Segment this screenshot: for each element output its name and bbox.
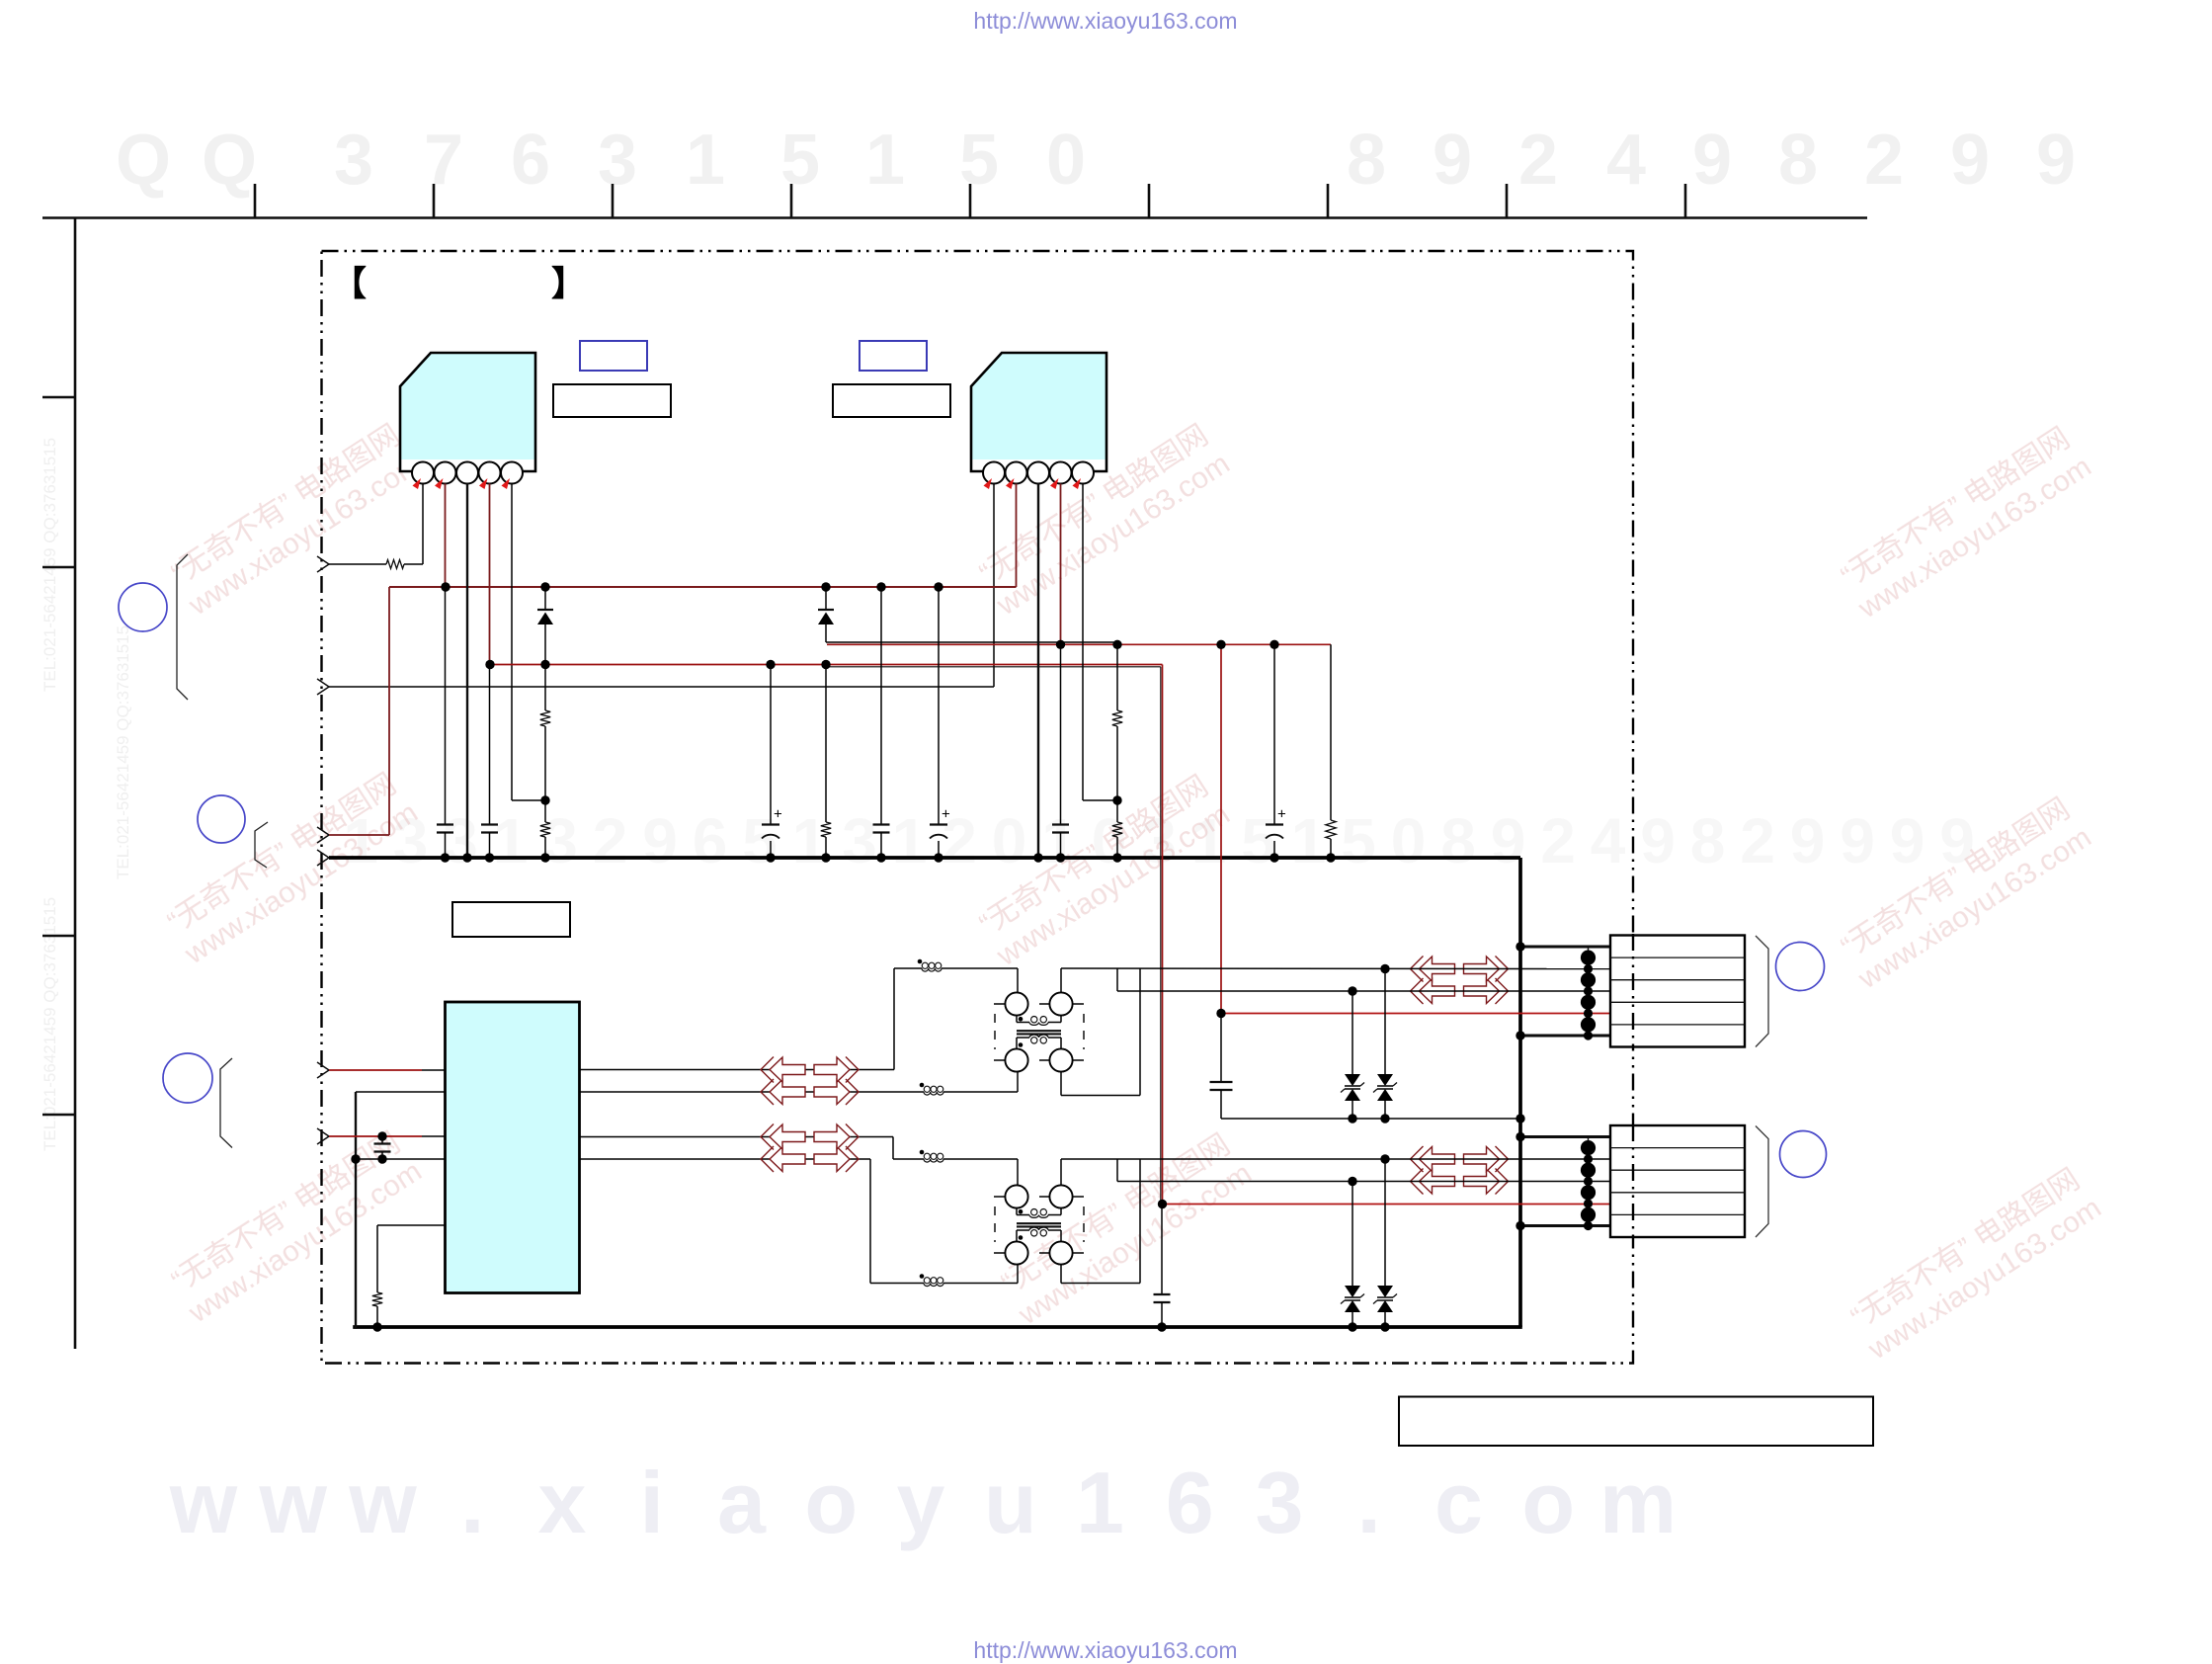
svg-text:9: 9 <box>1790 805 1826 876</box>
TVS diode VD2 <box>1377 1074 1393 1086</box>
capacitor C5 electrolytic <box>930 823 947 825</box>
IC U2 body <box>971 353 1106 471</box>
junctions on bus B2 <box>485 660 494 669</box>
wire TVS3 top <box>1352 1182 1353 1287</box>
wire TVS4 top <box>1384 1159 1386 1286</box>
connector CN2 mate bracket <box>1756 1126 1768 1238</box>
svg-text:1: 1 <box>1076 1454 1124 1551</box>
capacitor C6 <box>1052 823 1069 825</box>
transistor Q5 <box>1005 1185 1027 1207</box>
wire U1 pin4 drop <box>489 484 491 665</box>
capacitor C7 electrolytic <box>1266 823 1283 825</box>
svg-text:6: 6 <box>511 121 550 200</box>
part label box IC3 <box>452 902 570 937</box>
wire R1 to U1 pin1 <box>404 563 423 565</box>
wire node to R2 <box>544 665 546 711</box>
watermark top digit row <box>116 121 2076 200</box>
svg-text:3: 3 <box>443 805 478 876</box>
svg-text:o: o <box>804 1454 858 1551</box>
wire L2 to Q bank <box>943 1091 1018 1093</box>
junctions on gnd line 1132 <box>1348 1114 1356 1123</box>
svg-text:5: 5 <box>959 121 999 200</box>
junctions near CN1 <box>1516 942 1524 951</box>
svg-text:w: w <box>348 1454 417 1551</box>
transformer T2 shield dashes <box>994 1206 996 1242</box>
svg-text:5: 5 <box>780 121 820 200</box>
diode D1 <box>537 609 553 611</box>
svg-text:w: w <box>259 1454 328 1551</box>
svg-text:0: 0 <box>992 805 1027 876</box>
input arrow IN5 <box>317 1062 329 1078</box>
capacitor C3 electrolytic <box>762 823 779 825</box>
svg-text:8: 8 <box>1440 805 1476 876</box>
coupler arrows pair 4 <box>1420 1169 1455 1194</box>
transformer T1 primary <box>1016 1015 1018 1023</box>
wire C7 hang <box>1273 644 1275 824</box>
svg-text:8: 8 <box>1347 121 1386 200</box>
resistor R7 <box>1326 820 1336 839</box>
svg-text:m: m <box>1599 1454 1677 1551</box>
capacitor C1 <box>437 823 453 825</box>
wire B2 drop black twin <box>1160 667 1162 1205</box>
TVS diode VD3 <box>1345 1286 1360 1297</box>
inductor L3 <box>924 1159 943 1162</box>
transformer T2 primary <box>1016 1207 1018 1215</box>
wire C2 to GND bus <box>489 833 491 859</box>
capacitor C10 <box>1154 1293 1171 1295</box>
svg-text:i: i <box>640 1454 664 1551</box>
wire C9 chain <box>1220 1014 1222 1083</box>
wire R8 to GND bottom <box>376 1306 378 1327</box>
wire thick CN2 pin1 <box>1520 1135 1610 1138</box>
ref circle CN1 <box>1776 943 1825 991</box>
svg-text:5: 5 <box>742 805 778 876</box>
coupler arrows pair 3 <box>1420 979 1455 1004</box>
wire TVS2 bottom <box>1384 1101 1386 1119</box>
svg-text:3: 3 <box>1256 1454 1304 1551</box>
note box bottom <box>1399 1397 1873 1447</box>
wire R7 to GND bus <box>1330 839 1332 858</box>
wire node to C6 <box>1060 644 1062 824</box>
IC U2 pin arrows <box>984 478 993 489</box>
bus +B top <box>389 586 1017 588</box>
svg-text:9: 9 <box>1692 121 1732 200</box>
svg-text:3: 3 <box>842 805 877 876</box>
inductor L2 <box>924 1092 943 1095</box>
wire Q8 output riser <box>1060 1264 1062 1284</box>
ref circle A <box>119 583 167 631</box>
input arrow IN6 <box>317 1128 329 1144</box>
capacitor C8 <box>374 1142 391 1144</box>
junctions on line651 <box>1056 640 1065 649</box>
wire U1 pin2 drop <box>445 484 447 588</box>
wire thick CN2 pin5 <box>1520 1224 1610 1227</box>
wire IN2 line to U2 pin1 <box>329 686 994 688</box>
resistor R5 <box>1112 710 1122 726</box>
brace C <box>220 1058 232 1148</box>
svg-text:3: 3 <box>334 121 373 200</box>
wire GND right drop <box>1518 858 1522 1327</box>
svg-text:0: 0 <box>1391 805 1427 876</box>
svg-text:4: 4 <box>1591 805 1626 876</box>
svg-text:6: 6 <box>693 805 728 876</box>
ref circle C <box>163 1053 212 1103</box>
wire U3 pin feedback <box>377 1224 446 1226</box>
bus B2 black twin <box>826 666 1161 668</box>
part label box 2 <box>833 384 950 417</box>
wire node A to C2 <box>489 665 491 825</box>
top ruler line <box>42 216 1867 219</box>
inductor L1 <box>922 968 942 971</box>
wire TVS3 bottom <box>1352 1312 1353 1327</box>
svg-text:1: 1 <box>865 121 905 200</box>
svg-text:x: x <box>538 1454 587 1551</box>
transistor Q2 <box>1049 992 1072 1015</box>
wire L3 to Q bank2 <box>943 1158 1018 1160</box>
wire D1 to bus2 <box>544 624 546 665</box>
svg-text:1: 1 <box>892 805 928 876</box>
svg-text:2: 2 <box>1864 121 1904 200</box>
wire line651 red <box>827 643 1331 645</box>
svg-text:+: + <box>774 806 782 823</box>
wire R6 to GND bus <box>1116 837 1118 858</box>
bus GND bottom <box>353 1325 1522 1329</box>
svg-text:u: u <box>984 1454 1037 1551</box>
wire C8 bottom <box>381 1152 383 1160</box>
connector CN1 mate bracket <box>1756 936 1768 1047</box>
inductor L4 <box>924 1284 943 1287</box>
wire C9 to gnd line <box>1220 1090 1222 1119</box>
wire U3 out4 <box>580 1158 871 1160</box>
svg-text:9: 9 <box>642 805 678 876</box>
svg-text:7: 7 <box>424 121 463 200</box>
Q bank 1 stubs <box>994 1003 1006 1005</box>
wire IN5 red to U3 <box>329 1069 422 1071</box>
TVS diode VD1 <box>1345 1074 1360 1086</box>
wire U1 pin3 ground <box>466 484 468 859</box>
junctions on GND bottom bus <box>372 1322 381 1331</box>
transistor Q8 <box>1049 1241 1072 1264</box>
brace B <box>255 822 268 868</box>
capacitor C9 <box>1210 1081 1233 1083</box>
transistor Q1 <box>1005 992 1027 1015</box>
wire C3 to GND bus <box>770 841 772 858</box>
junctions lower IC <box>377 1131 386 1140</box>
wire Q4 output riser <box>1060 1071 1062 1096</box>
top ruler ticks <box>255 184 1685 217</box>
svg-text:Q: Q <box>116 121 171 200</box>
svg-text:y: y <box>897 1454 945 1551</box>
part label box 1 <box>553 384 671 417</box>
svg-text:TEL:021-56421459 QQ:37631515: TEL:021-56421459 QQ:37631515 <box>41 438 59 692</box>
wire R2 to node <box>544 726 546 800</box>
ref circle B <box>198 795 245 843</box>
wire node to R5 <box>1116 644 1118 710</box>
svg-text:9: 9 <box>2036 121 2076 200</box>
svg-text:2: 2 <box>1518 121 1558 200</box>
capacitor C2 <box>481 823 498 825</box>
svg-text:3: 3 <box>598 121 637 200</box>
wire C1 to GND bus <box>445 833 447 859</box>
wire U3 out2 <box>580 1091 925 1093</box>
wire C7 to GND bus <box>1273 841 1275 858</box>
IC U1 pin arrows <box>413 478 422 489</box>
IC U3 body <box>446 1002 580 1293</box>
wire B2 drop red <box>1162 665 1164 1205</box>
wire Q2 output to CN1 pin2 <box>1060 968 1062 993</box>
resistor R1 <box>386 560 404 569</box>
wire node to R4 <box>825 665 827 823</box>
wire C10 to GND bottom <box>1161 1302 1163 1327</box>
wire C4 hang <box>880 587 882 825</box>
ref label box blue 2 <box>860 341 927 371</box>
svg-text:2: 2 <box>593 805 628 876</box>
svg-text:9: 9 <box>1890 805 1925 876</box>
junctions near CN2 <box>1516 1132 1524 1141</box>
wire Q6 output to CN2 pin2 <box>1060 1159 1062 1186</box>
wire C5 to GND bus <box>938 841 940 858</box>
wire L4 to Q bank2 <box>943 1283 1018 1285</box>
svg-text:1: 1 <box>1291 805 1327 876</box>
board border over connectors <box>1632 934 1634 1048</box>
wire jog to CN2 pin3 <box>1116 1159 1118 1182</box>
svg-text:9: 9 <box>1640 805 1676 876</box>
wire L1 to Q bank <box>942 967 1018 969</box>
wire IN3 red <box>329 834 389 836</box>
wire R4 to GND bus <box>825 837 827 858</box>
transistor Q7 <box>1005 1241 1027 1264</box>
wire U3 out1 <box>580 1069 895 1071</box>
transistor Q4 <box>1049 1048 1072 1071</box>
svg-text:w: w <box>169 1454 238 1551</box>
wire line651 red drop <box>1220 644 1222 1013</box>
wire D1 anode chain <box>544 587 546 610</box>
svg-text:.: . <box>460 1454 484 1551</box>
svg-text:a: a <box>717 1454 767 1551</box>
wire C10 chain <box>1161 1205 1163 1295</box>
wire D2 out corner <box>825 624 827 642</box>
watermark diagonal pink stamps <box>159 417 2107 1366</box>
svg-text:9: 9 <box>1433 121 1472 200</box>
watermark middle digit row <box>343 805 1975 876</box>
wire red feed CN2 pin4 <box>1163 1204 1611 1206</box>
svg-text:http://www.xiaoyu163.com: http://www.xiaoyu163.com <box>973 8 1237 34</box>
wire U2 pin5 drop <box>1082 484 1084 801</box>
wire IN1 to R1 <box>329 563 386 565</box>
wire C6 to GND bus <box>1060 833 1062 859</box>
junctions on GND main bus <box>441 853 450 862</box>
resistor R8 <box>372 1292 382 1306</box>
svg-text:4: 4 <box>1606 121 1646 200</box>
TVS diode VD4 <box>1377 1286 1393 1297</box>
wire D2 chain <box>825 587 827 610</box>
wire IN6 red to U3 <box>329 1135 422 1137</box>
resistor R6 <box>1112 822 1122 837</box>
wire TVS1 bottom <box>1352 1101 1353 1119</box>
connector CN2 jumper <box>1588 1137 1590 1226</box>
svg-text:.: . <box>1357 1454 1381 1551</box>
svg-text:5: 5 <box>1341 805 1376 876</box>
svg-text:1: 1 <box>493 805 529 876</box>
wire U2 pin4 drop <box>1060 484 1062 645</box>
transformer T1 shield dashes <box>994 1014 996 1049</box>
ref label box blue 1 <box>580 341 647 371</box>
wire C4 to GND bus <box>880 833 882 859</box>
wire C5 hang <box>938 587 940 825</box>
wire TVS1 top <box>1352 991 1353 1074</box>
svg-text:8: 8 <box>1778 121 1818 200</box>
wire R3 to GND bus <box>544 837 546 858</box>
bus GND main <box>329 856 1520 860</box>
svg-text:2: 2 <box>1740 805 1775 876</box>
svg-text:9: 9 <box>1950 121 1990 200</box>
wire U3 in4 <box>356 1158 446 1160</box>
IC U1 body <box>400 353 535 471</box>
wire R5 to node <box>1116 726 1118 800</box>
svg-text:3: 3 <box>542 805 578 876</box>
junctions mid nodes <box>540 795 549 804</box>
svg-text:6: 6 <box>1166 1454 1214 1551</box>
input arrow IN1 <box>317 556 329 572</box>
junctions on +B top bus <box>441 582 450 591</box>
svg-text:c: c <box>1434 1454 1483 1551</box>
wire node to R6 <box>1116 800 1118 822</box>
connector CN1 jumper <box>1588 947 1590 1036</box>
wire C8 top <box>381 1136 383 1144</box>
wire U2 pin3 ground <box>1037 484 1039 859</box>
connector CN2 <box>1610 1125 1745 1237</box>
IC U1 pins 1-5 <box>412 462 523 484</box>
wire line651 end to R7 <box>1330 644 1332 820</box>
svg-text:【: 【 <box>332 265 367 303</box>
input arrow IN4 <box>317 850 329 866</box>
wire TVS2 top <box>1384 969 1386 1075</box>
svg-text:TEL:021-56421459 QQ:37631515: TEL:021-56421459 QQ:37631515 <box>114 625 132 879</box>
wire thick CN1 pin1 <box>1520 946 1610 949</box>
wire U1 pin2 to C1 <box>445 587 447 825</box>
coupler arrows pair 2 <box>770 1147 805 1172</box>
wire TVS4 bottom <box>1384 1312 1386 1327</box>
wire U3 out3 <box>580 1136 894 1138</box>
wire GND left riser <box>355 1092 357 1329</box>
Q bank 2 stubs <box>994 1196 1006 1198</box>
svg-text:5: 5 <box>1241 805 1276 876</box>
svg-text:Q: Q <box>202 121 257 200</box>
svg-text:8: 8 <box>1690 805 1726 876</box>
bus B2 red <box>490 664 1163 666</box>
svg-text:1: 1 <box>792 805 828 876</box>
svg-text:+: + <box>942 806 950 823</box>
transformer T2 core <box>1017 1222 1061 1224</box>
transistor Q6 <box>1049 1185 1072 1207</box>
svg-text:http://www.xiaoyu163.com: http://www.xiaoyu163.com <box>973 1637 1237 1663</box>
board outline dash-dot border <box>322 251 1634 1364</box>
IC U2 pins 1-5 <box>983 462 1094 484</box>
resistor R2 <box>540 710 550 726</box>
input arrow IN3 <box>317 827 329 843</box>
svg-text:】: 】 <box>551 265 586 303</box>
svg-text:9: 9 <box>1840 805 1875 876</box>
wire +B riser left <box>388 587 390 835</box>
transformer T2 secondary <box>1016 1230 1018 1242</box>
watermark big bottom text <box>169 1454 1677 1551</box>
wire U2 pin2 drop <box>1016 484 1018 588</box>
coupler arrows pair 1 <box>770 1080 805 1105</box>
wire jog to CN1 pin3 <box>1116 968 1118 991</box>
capacitor C4 <box>873 823 890 825</box>
wire thick CN1 pin5 <box>1520 1035 1610 1038</box>
transformer T1 secondary <box>1016 1038 1018 1049</box>
resistor R4 <box>821 822 831 837</box>
svg-text:2: 2 <box>1540 805 1576 876</box>
wire C3 hang <box>770 665 772 825</box>
wire red feed CN1 pin4 <box>1221 1013 1610 1015</box>
svg-text:0: 0 <box>1046 121 1086 200</box>
diode D2 <box>818 609 834 611</box>
left ruler line <box>74 218 77 1350</box>
transformer T1 core <box>1017 1030 1061 1032</box>
wire U1 pin5 drop <box>511 484 513 801</box>
brace A <box>177 554 188 700</box>
ref circle CN2 <box>1780 1131 1827 1178</box>
input arrow IN2 <box>317 679 329 695</box>
connector CN1 <box>1610 936 1745 1047</box>
wire U3 in2 <box>356 1091 446 1093</box>
svg-text:o: o <box>1521 1454 1575 1551</box>
left ruler ticks <box>42 397 75 1115</box>
resistor R3 <box>540 822 550 837</box>
svg-text:+: + <box>1277 806 1286 823</box>
transistor Q3 <box>1005 1048 1027 1071</box>
wire node to R3 <box>544 800 546 822</box>
svg-text:1: 1 <box>686 121 725 200</box>
